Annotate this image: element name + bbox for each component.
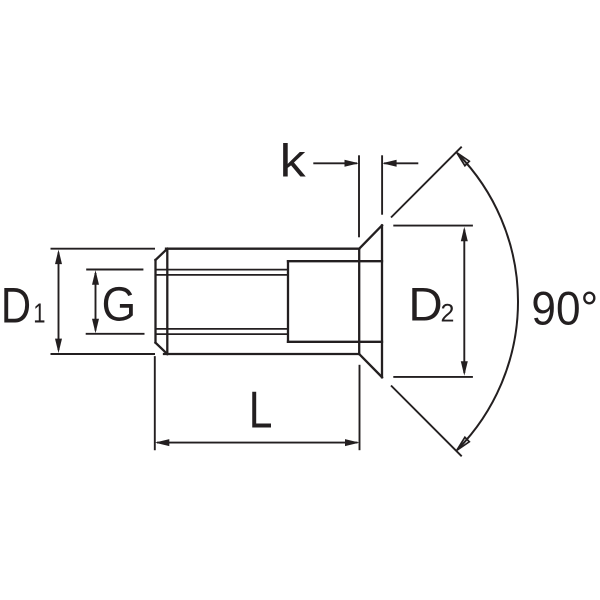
svg-text:1: 1 (33, 298, 45, 329)
svg-text:90°: 90° (531, 281, 598, 335)
svg-text:L: L (249, 382, 273, 440)
svg-text:D: D (1, 277, 31, 333)
svg-text:k: k (280, 135, 306, 187)
svg-text:2: 2 (441, 300, 455, 328)
svg-text:G: G (102, 277, 137, 331)
svg-text:D: D (408, 278, 442, 331)
